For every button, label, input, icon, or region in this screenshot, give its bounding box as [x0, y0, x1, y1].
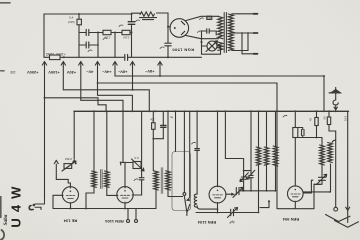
node L5a top junction [316, 137, 318, 139]
testpoint arrow p4V [113, 62, 117, 67]
lamp LP1 [207, 41, 217, 51]
wire L3b bottom [266, 165, 268, 191]
wire L2b top [175, 111, 177, 151]
trimmer RT1 [62, 161, 76, 171]
transformer TR1 heater winding [218, 42, 223, 51]
svg-text:104: 104 [343, 116, 347, 121]
testpoint arrow g8V [158, 62, 162, 67]
terminal tap2 [254, 32, 258, 34]
node V4-bus [217, 110, 219, 112]
main bus [74, 110, 349, 112]
testpoint arrow m4V [95, 62, 99, 67]
svg-text:+200V: +200V [27, 70, 39, 75]
wire L3a bottom [258, 165, 260, 212]
curl terminal [334, 207, 338, 211]
node S3-bus [167, 110, 169, 112]
wire trimmer1 row [54, 160, 70, 188]
wire mains drop b [247, 33, 249, 51]
wire drop x98 [97, 33, 99, 58]
svg-text:U 4 W: U 4 W [9, 185, 24, 227]
wire H4 route [115, 67, 324, 112]
resistor R6 [150, 111, 164, 170]
smudge left mid [1, 70, 5, 72]
earth lead [346, 111, 350, 222]
node R6-bus [154, 110, 156, 112]
svg-text:6V: 6V [200, 40, 204, 44]
earth chevron small [326, 215, 351, 222]
label ant squiggle [283, 115, 287, 117]
antenna ANT1 [329, 87, 340, 111]
node C4-H2 [131, 32, 133, 34]
svg-text:+8V−: +8V− [117, 70, 127, 75]
svg-text:RGN 1500: RGN 1500 [172, 47, 194, 52]
node V4-cath [217, 212, 219, 214]
wire L5a top [321, 138, 323, 146]
switch contact stud [183, 110, 186, 195]
svg-text:REN 1104: REN 1104 [197, 220, 216, 225]
wire mains tap2 [232, 32, 254, 34]
wire L1a bottom [86, 187, 94, 208]
wire top bus [44, 13, 132, 15]
wire L6 bottom [197, 206, 217, 209]
svg-text:+100V: +100V [48, 70, 60, 75]
testpoint arrow p8V [130, 62, 134, 67]
wire x168 drop [167, 27, 169, 58]
wire HT rail [64, 56, 202, 58]
wire mains bottom [232, 51, 254, 54]
node top-R2 [78, 13, 80, 15]
arrow lamp pointer [206, 41, 218, 52]
svg-text:120Ω: 120Ω [45, 52, 54, 56]
trimmer TC1 [240, 173, 248, 191]
node R9-bus [328, 110, 330, 112]
capacitor C3 series in rail [125, 54, 128, 60]
label uF squiggle c [103, 38, 107, 40]
ground bus GB [53, 208, 156, 210]
terminal dot pair [127, 111, 145, 222]
core L2 [161, 168, 163, 194]
resistor R9 [322, 111, 335, 131]
transformer TR1 secondary winding [218, 16, 223, 38]
coil L5b [328, 143, 333, 163]
grid RC group R7 [293, 128, 298, 187]
node TC1 top [243, 170, 245, 172]
wire U link [260, 202, 269, 208]
transformer TR1 core [224, 13, 226, 53]
node F1 left [44, 97, 46, 99]
wire V5 top [294, 111, 296, 127]
tube V2 RE134 [62, 187, 78, 203]
wire lamp loop [202, 46, 221, 54]
capacitor C8 series [192, 111, 200, 194]
node A7-H4 [159, 75, 161, 77]
wire S2 route [98, 82, 278, 84]
wire L5b bottom [330, 164, 332, 192]
wire V1 anode top [168, 16, 219, 26]
wire S3 route [63, 67, 149, 112]
wire L3c top [275, 111, 277, 146]
wire x225 drop [224, 111, 226, 158]
svg-text:+4V−: +4V− [101, 70, 111, 75]
resistor R5 dropper zigzag [140, 12, 155, 16]
grid RC group C11 [302, 130, 305, 136]
node C8-bus [196, 110, 198, 112]
resistor R2 0.4 2W [77, 14, 81, 57]
wire V2 cathode [70, 203, 72, 209]
coil L1b [105, 171, 110, 187]
testpoint arrow 100V [61, 62, 65, 67]
svg-text:+30V: +30V [67, 70, 77, 75]
node V3-GB [124, 208, 126, 210]
wire L3b top [266, 111, 268, 147]
node L1a-bus [93, 110, 95, 112]
wire L2b bottom [168, 190, 183, 197]
jack J1 [29, 199, 44, 210]
smudge corner [1, 230, 4, 240]
node TC1 bottom [243, 190, 245, 192]
smudge top-left [0, 2, 10, 4]
tube V1 rectifier [170, 19, 189, 38]
resistor R1 120ohm [44, 55, 64, 60]
node tap2-a [241, 32, 243, 34]
wire heater left [201, 31, 203, 46]
grid line V5 [303, 180, 313, 193]
svg-text:50: 50 [322, 116, 326, 119]
resistor R8 wave trap [308, 111, 318, 137]
coil L1a [92, 171, 97, 187]
tube V5 REN904 [288, 186, 304, 202]
label Fe1 [200, 18, 204, 20]
wire bus to trimmer1 [72, 111, 76, 163]
shield box [172, 152, 191, 211]
node L3a-y212 [258, 212, 260, 214]
label uF squiggle b [136, 20, 140, 22]
label C6 squiggle [198, 31, 202, 33]
coil L5a [320, 145, 325, 165]
wire V3 cathode [125, 180, 142, 209]
wire mains tap1 [232, 13, 254, 15]
svg-text:0,4: 0,4 [69, 16, 74, 20]
node C4 top [131, 13, 133, 15]
trimmer block top row [244, 170, 251, 172]
node rail-R1 [63, 56, 65, 58]
tube V3 REN1104 [117, 187, 133, 203]
core L1 [101, 170, 102, 189]
capacitor C5 [165, 43, 171, 46]
switch arm [184, 111, 190, 215]
node H2-x115 [114, 32, 116, 34]
node L3a-bus [258, 110, 260, 112]
node L3b-y188 [266, 190, 268, 192]
coil L3b [264, 147, 269, 165]
node S2-bus [276, 110, 278, 112]
capacitor C9 trimmer [228, 208, 238, 218]
wire L2a bottom [155, 190, 157, 209]
label uF squiggle a [119, 25, 123, 27]
wire grid row tube V4 [226, 193, 231, 195]
node S2-A4 [97, 82, 99, 84]
svg-text:4µF: 4µF [229, 220, 235, 224]
svg-text:+100V: +100V [55, 52, 65, 56]
node S4-bus [122, 110, 124, 112]
svg-text:0,5M: 0,5M [65, 157, 72, 161]
wire drop x115 [114, 33, 116, 58]
testpoint arrow 30V [79, 62, 83, 67]
node L1a-GB [85, 208, 87, 210]
coil L2a [154, 171, 159, 190]
coil L3c [273, 146, 278, 166]
cathode row y212 [196, 212, 259, 214]
coil L3a [256, 147, 261, 165]
node A6-bus [105, 110, 107, 112]
node H4-bus [323, 110, 325, 112]
capacitor C10 series arrow [233, 187, 243, 197]
node antenna-bus [335, 110, 337, 112]
svg-text:0,1M: 0,1M [123, 35, 130, 39]
svg-text:RE 134: RE 134 [63, 219, 77, 224]
wire x251 drop [250, 111, 252, 170]
wire C11 links [295, 128, 302, 138]
wire H2 tap [79, 32, 132, 34]
node R8-bus [316, 110, 318, 112]
wire L1b bottom [107, 187, 118, 195]
wire trimmer feed [225, 159, 243, 178]
ironcore marker Fe1 [207, 16, 212, 19]
resistor R3 [103, 30, 111, 34]
label uF squiggle e [160, 47, 164, 49]
wire L3c bottom [275, 166, 277, 191]
slider bar R5 [140, 18, 157, 20]
wire L3a top [258, 111, 260, 147]
node rect grid [167, 26, 169, 28]
wire mains drop a [241, 33, 243, 54]
svg-text:10k: 10k [150, 118, 155, 122]
wire TC5 bottom [314, 183, 322, 185]
wire left long drop [44, 67, 46, 200]
node grid-L5b [329, 191, 331, 193]
node H3-x98 [97, 44, 99, 46]
terminal tap3 [254, 53, 258, 55]
earth chevron big [335, 221, 359, 228]
wire V4 anode top [217, 111, 219, 186]
wire V2 anode [53, 195, 63, 208]
wire V4 cathode [217, 203, 219, 213]
svg-text:REN 904: REN 904 [282, 217, 299, 222]
coil L2b [166, 171, 171, 190]
wire C4 leads [131, 14, 133, 57]
wire A7 drop [159, 67, 161, 77]
node V5-bus [294, 110, 296, 112]
wire antenna extension down [335, 131, 337, 207]
node RT2 right [120, 162, 122, 164]
terminal tap1 [254, 13, 258, 15]
wire F1 feeder [45, 98, 106, 112]
svg-text:150: 150 [10, 70, 16, 74]
node x250-bus [250, 110, 252, 112]
node x168-rail [167, 56, 169, 58]
wire A3 drop [81, 67, 123, 112]
node V2-GB [70, 208, 72, 210]
wire RC block to L5a [303, 137, 322, 139]
transformer TR1 primary winding [228, 14, 233, 50]
wire A6 route [132, 67, 134, 90]
wire RT2 right drop [122, 111, 124, 162]
capacitor C7 [161, 111, 173, 138]
tube V5 bottom loop [277, 83, 320, 209]
node tap2-b [247, 32, 249, 34]
capacitor C4 electrolytic [128, 22, 135, 25]
svg-text:+8V−: +8V− [144, 69, 154, 74]
wire V1 anode bottom [186, 35, 219, 38]
svg-text:45: 45 [308, 118, 312, 122]
trimmer RT2 [132, 159, 145, 171]
svg-text:REN 1104: REN 1104 [105, 219, 124, 224]
testpoint arrow 200V [42, 62, 46, 67]
wire L2a top [167, 111, 169, 171]
wire L1b top [106, 111, 108, 171]
label uF squiggle d [88, 50, 92, 52]
svg-text:0,4: 0,4 [134, 156, 139, 160]
svg-text:(2W): (2W) [68, 20, 75, 24]
capacitor C2 [86, 42, 89, 48]
resistor R4 [122, 30, 130, 34]
wire top to rectifier [132, 13, 169, 27]
node H2-x98 [97, 32, 99, 34]
smudge left-edge [0, 196, 2, 218]
coil L6 [194, 194, 197, 207]
wire RT2 left [121, 163, 133, 188]
capacitor C6 heater [207, 29, 209, 33]
node x225-bus [224, 110, 226, 112]
node L6-V4 [217, 208, 219, 210]
node H4 corner [323, 75, 325, 77]
wire left HT drop [43, 14, 45, 57]
wire S4 route [98, 67, 133, 112]
node L2a-bus [175, 110, 177, 112]
terminal U blob [268, 200, 270, 202]
wire L5b hook [332, 140, 336, 142]
trimmer TC2 [247, 170, 255, 191]
trimmer TC5 [317, 165, 327, 185]
wire H3 tap [79, 44, 98, 46]
svg-text:4V−: 4V− [86, 70, 94, 75]
svg-text:4µ: 4µ [170, 116, 174, 120]
wire L1a top [93, 111, 95, 171]
tube V4 REN1104 [209, 186, 226, 203]
node L3c-row [275, 190, 277, 192]
node A3-F1 [132, 89, 134, 91]
node TC2 bottom [250, 190, 252, 192]
capacitor C1 [86, 30, 89, 36]
